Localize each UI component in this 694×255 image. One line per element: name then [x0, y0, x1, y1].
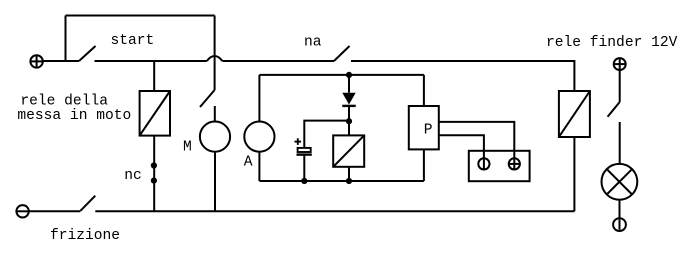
wire P bottom lead [423, 149, 425, 181]
svg-text:rele della: rele della [20, 94, 108, 110]
junction dot below diode [346, 118, 352, 124]
wire M bottom to main rail [214, 152, 216, 212]
switch frizione (blade) [80, 196, 95, 211]
motor M circle [200, 122, 230, 152]
capacitor top plate (outline) [298, 148, 311, 152]
relay coil rele finder [559, 91, 590, 137]
relay coil rele della messa in moto [140, 91, 170, 136]
wire coil lead from top rail [153, 61, 155, 91]
sub-circuit bottom rail [259, 180, 424, 182]
wire lamp terminal to switch [619, 70, 621, 102]
sub-circuit top rail [259, 74, 424, 76]
lamp (circle with X) [602, 164, 638, 200]
battery minus terminal [478, 158, 489, 169]
junction dot nc bottom [151, 178, 157, 184]
svg-text:na: na [304, 35, 322, 51]
wire diode anode lead [348, 75, 350, 93]
wire coil bottom to main rail [153, 136, 155, 212]
ammeter A circle [244, 122, 274, 152]
junction dot middle coil bottom [346, 178, 352, 184]
svg-text:frizione: frizione [50, 228, 120, 244]
svg-text:M: M [183, 139, 192, 155]
wire diode cathode lead [348, 106, 350, 121]
svg-text:P: P [424, 123, 433, 139]
wire start switch to hop [95, 60, 207, 62]
wire P top lead [423, 75, 425, 106]
wire lamp switch contact to lamp [619, 122, 621, 164]
wire A bottom lead [258, 152, 260, 181]
bypass wire top horizontal [66, 15, 215, 17]
junction dot nc top [151, 162, 157, 168]
P box [409, 106, 439, 149]
wire junction to capacitor top [304, 121, 349, 148]
svg-text:A: A [244, 155, 253, 171]
svg-text:start: start [111, 33, 155, 49]
wire hop over vertical [207, 56, 223, 61]
main bottom rail [95, 210, 574, 212]
terminal plus top-left [30, 55, 42, 67]
wire P to battery minus [439, 135, 484, 158]
wire middle coil bottom lead [348, 167, 350, 181]
terminal plus lamp branch [614, 58, 626, 70]
bypass wire right vertical through hop [214, 16, 216, 91]
switch start (blade) [79, 46, 96, 61]
switch na (blade) [334, 46, 350, 61]
relay coil middle [333, 135, 364, 166]
wire hop to na switch [222, 60, 334, 62]
capacitor C polarized plus sign [295, 138, 302, 145]
wire capacitor bottom lead [303, 156, 305, 181]
switch lamp branch (blade) [608, 102, 620, 117]
battery plus terminal [509, 158, 520, 169]
wire from plus terminal to start switch [43, 60, 79, 62]
switch M branch (blade) [200, 90, 215, 107]
wire middle coil top lead [348, 121, 350, 135]
wire M switch contact [214, 106, 216, 122]
battery box [469, 151, 530, 181]
svg-text:rele finder 12V: rele finder 12V [546, 35, 678, 51]
bypass wire left vertical [65, 16, 67, 62]
junction dot top rail [346, 72, 352, 78]
wire lamp to bottom terminal [619, 200, 621, 218]
wire A top lead [258, 75, 260, 122]
diode (cathode down) [342, 93, 355, 106]
wire P to battery plus [439, 122, 515, 158]
terminal minus lamp bottom [613, 218, 626, 231]
capacitor bottom plate [297, 153, 312, 155]
svg-text:nc: nc [124, 168, 142, 184]
wire na switch to rele finder corner [351, 61, 574, 91]
wire frizione terminal to switch [29, 210, 81, 212]
wire rele finder bottom lead [573, 137, 575, 211]
terminal minus frizione [16, 205, 28, 217]
svg-text:messa in moto: messa in moto [17, 108, 131, 124]
junction dot capacitor bottom [301, 178, 307, 184]
